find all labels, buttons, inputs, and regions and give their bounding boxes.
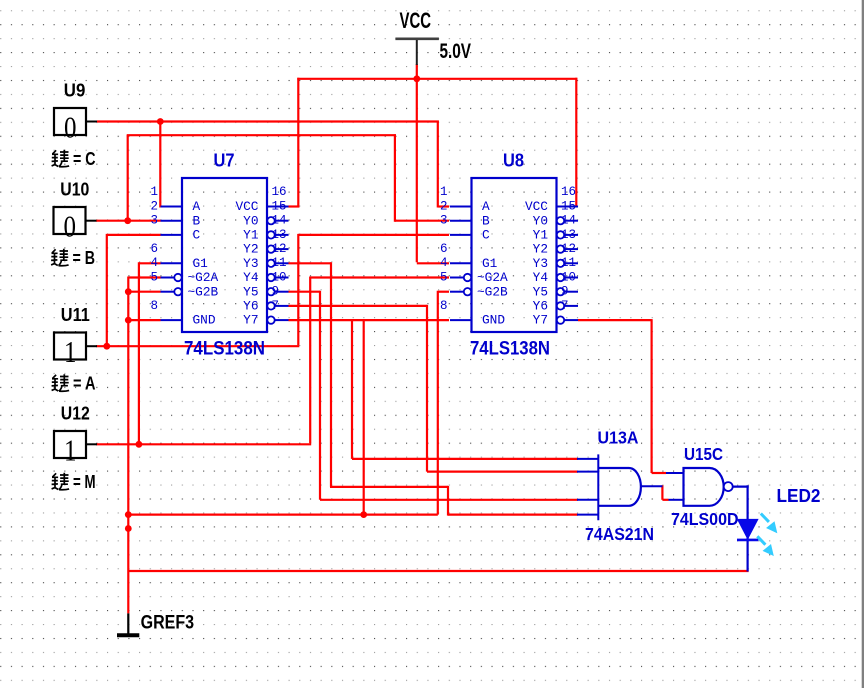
- svg-text:VCC: VCC: [525, 199, 548, 214]
- wire into U8 pin B: [395, 220, 449, 222]
- label 键 = A: [52, 374, 70, 391]
- wire riser U9 to U7 pin A: [159, 121, 161, 208]
- wire riser down to U8 VCC pin: [575, 78, 577, 207]
- pin 1 (A) of U7: [161, 206, 183, 208]
- label 键 = M: [52, 473, 70, 490]
- LED cathode bar: [737, 539, 758, 542]
- wire U12 key output horizontal y=444.3: [96, 443, 311, 445]
- junction ground vertical / ground rail: [125, 511, 132, 518]
- svg-text:C: C: [193, 228, 201, 243]
- NAND gate body: [684, 468, 724, 506]
- wire U7 Y6 out horizontal: [289, 305, 428, 307]
- wire VCC symbol lead red part: [416, 64, 418, 80]
- pin 5 (~G2B) of U8: [450, 291, 464, 293]
- wire VCC rail horizontal y=78.8: [297, 78, 577, 80]
- wire riser U7 VCC up: [297, 78, 299, 208]
- LED triangle: [738, 519, 758, 538]
- svg-text:4: 4: [150, 256, 158, 270]
- wire ground vertical x=128.3: [127, 277, 129, 614]
- svg-text:Y1: Y1: [533, 228, 549, 243]
- svg-text:Y0: Y0: [533, 213, 548, 228]
- wire U7 Y7 out horizontal (continuous through U8 GND row): [289, 319, 450, 321]
- pin 11 (Y4) of U8: [557, 274, 564, 281]
- svg-text:~G2A: ~G2A: [477, 270, 508, 285]
- junction dot on ground vertical: [125, 525, 132, 532]
- pin 13 (Y2) of U8: [557, 245, 564, 252]
- svg-text:10: 10: [272, 270, 287, 284]
- wire riser down to U8 pin B row: [394, 134, 396, 222]
- pin 6 (G1) of U8: [450, 262, 472, 264]
- pin 4 (~G2A) of U7: [161, 277, 175, 279]
- svg-text:U8: U8: [503, 151, 524, 171]
- svg-text:Y5: Y5: [243, 284, 258, 299]
- AND input stub 3: [577, 499, 598, 501]
- NAND input stub 2: [669, 499, 684, 501]
- svg-text:5: 5: [440, 270, 448, 284]
- svg-text:= M: = M: [73, 472, 96, 492]
- pin 12 (Y3) of U7: [267, 260, 274, 267]
- junction U9 wire / U7 A riser: [157, 118, 164, 125]
- svg-text:13: 13: [561, 228, 576, 242]
- svg-text:1: 1: [64, 433, 77, 468]
- wire riser U10 branch up: [127, 135, 129, 220]
- pin 8 (GND) of U7: [161, 319, 183, 321]
- junction ground vertical / U7 GND: [125, 317, 132, 324]
- svg-text:74LS138N: 74LS138N: [184, 338, 265, 359]
- wire into AND gate input 1: [352, 458, 578, 460]
- svg-text:5: 5: [150, 270, 158, 284]
- pin 11 (Y4) of U7: [267, 274, 274, 281]
- pin 2 (B) of U7: [161, 220, 183, 222]
- svg-text:5.0V: 5.0V: [440, 40, 472, 63]
- pin 16 (VCC) of U7: [267, 206, 289, 208]
- wire ground rail y=514.6: [127, 513, 438, 515]
- svg-text:1: 1: [440, 185, 448, 199]
- label 键 = C: [52, 150, 70, 167]
- svg-text:1: 1: [150, 185, 158, 199]
- svg-text:9: 9: [272, 285, 280, 299]
- svg-text:LED2: LED2: [777, 486, 821, 506]
- wire riser U8 Y7 down to NAND: [650, 319, 652, 473]
- svg-text:~G2B: ~G2B: [188, 284, 219, 299]
- wire into NAND input 2: [662, 499, 668, 501]
- AND input stub 4: [577, 514, 598, 516]
- svg-text:GND: GND: [482, 313, 505, 328]
- svg-text:4: 4: [440, 256, 448, 270]
- wire Y3 jog down to AND in4 row: [447, 486, 449, 516]
- svg-text:Y5: Y5: [533, 284, 548, 299]
- svg-text:G1: G1: [193, 256, 209, 271]
- svg-text:74AS21N: 74AS21N: [585, 524, 654, 544]
- wire riser U11 up to U8 C row: [297, 234, 299, 345]
- svg-text:0: 0: [64, 209, 77, 244]
- wire U7 VCC pin stub extension: [289, 205, 300, 207]
- junction VCC rail: [413, 75, 420, 82]
- wire riser U7 Y6 down: [426, 305, 428, 472]
- svg-text:6: 6: [150, 242, 158, 256]
- svg-text:Y3: Y3: [533, 256, 548, 271]
- svg-text:8: 8: [150, 299, 158, 313]
- wire bottom rail y=571 to LED cathode: [128, 570, 748, 572]
- svg-text:U12: U12: [61, 404, 90, 424]
- wire riser ground rail up to U8 ~G2B: [437, 291, 439, 515]
- svg-text:14: 14: [272, 214, 287, 228]
- wire riser U12 up to U7 G1 row: [138, 262, 140, 443]
- svg-text:= C: = C: [73, 149, 96, 169]
- pin 7 (Y7) of U7: [267, 316, 274, 323]
- wire U11 key output horizontal y=346.2: [96, 345, 299, 347]
- wire into U7 pin G1: [139, 262, 161, 264]
- pin 13 (Y2) of U7: [267, 245, 274, 252]
- wire U10 key output to U7 pin B: [96, 220, 161, 222]
- pin 9 (Y6) of U7: [267, 302, 274, 309]
- AND gate input bar: [597, 454, 599, 520]
- pin 3 (C) of U7: [161, 234, 183, 236]
- pin 14 (Y1) of U8: [557, 231, 564, 238]
- svg-text:11: 11: [561, 256, 576, 270]
- pin 3 (C) of U8: [450, 234, 472, 236]
- junction ground rail / U8 GND riser: [360, 511, 367, 518]
- svg-text:14: 14: [561, 214, 576, 228]
- pin 1 (A) of U8: [450, 206, 472, 208]
- svg-text:16: 16: [272, 185, 287, 199]
- pin 10 (Y5) of U7: [267, 288, 274, 295]
- junction U10 wire / riser: [124, 217, 131, 224]
- LED light arrow 1: [761, 514, 777, 533]
- svg-text:GND: GND: [193, 313, 216, 328]
- LED light arrow 2: [757, 536, 773, 555]
- pin 12 (Y3) of U8: [557, 260, 564, 267]
- svg-text:10: 10: [561, 270, 576, 284]
- svg-text:3: 3: [150, 214, 158, 228]
- svg-text:B: B: [482, 213, 490, 228]
- svg-text:Y1: Y1: [243, 228, 259, 243]
- svg-text:A: A: [193, 199, 201, 214]
- wire U7 Y3 out horizontal: [289, 262, 332, 264]
- svg-text:Y4: Y4: [243, 270, 259, 285]
- svg-text:= B: = B: [73, 248, 96, 268]
- switch U10 (key B): [54, 207, 86, 234]
- wire U7 Y5 out horizontal: [289, 291, 321, 293]
- right window border: [862, 0, 864, 688]
- pin 14 (Y1) of U7: [267, 231, 274, 238]
- LED anode/cathode wire vertical: [746, 485, 748, 571]
- wire into U8 pin ~G2A: [310, 276, 449, 278]
- wire into U7 pin ~G2A: [128, 276, 160, 278]
- wire VCC down to U8 G1 row: [416, 79, 418, 262]
- svg-text:9: 9: [561, 285, 569, 299]
- NAND output bubble: [724, 482, 733, 491]
- pin 2 (B) of U8: [450, 220, 472, 222]
- svg-text:Y6: Y6: [243, 299, 258, 314]
- pin 16 (VCC) of U8: [557, 206, 579, 208]
- svg-text:Y2: Y2: [243, 242, 258, 257]
- svg-text:2: 2: [440, 199, 448, 213]
- wire riser U9 to U8 pin A: [437, 121, 439, 208]
- svg-text:= A: = A: [73, 374, 96, 394]
- svg-text:74LS138N: 74LS138N: [470, 338, 550, 359]
- wire into U8 pin G1: [417, 262, 449, 264]
- wire into AND gate input 4: [448, 513, 578, 515]
- svg-text:16: 16: [561, 185, 576, 199]
- pin 7 (Y7) of U8: [557, 316, 564, 323]
- svg-text:G1: G1: [482, 256, 498, 271]
- svg-text:3: 3: [440, 214, 448, 228]
- junction U12 wire / U7 G1 riser: [136, 441, 143, 448]
- svg-text:U11: U11: [61, 305, 90, 325]
- wire into U7 pin GND: [128, 319, 160, 321]
- decoder U7 74LS138N body: [182, 178, 267, 332]
- svg-text:2: 2: [150, 199, 158, 213]
- pin 4 (~G2A) of U8: [450, 277, 464, 279]
- svg-text:B: B: [193, 213, 201, 228]
- svg-text:Y0: Y0: [243, 213, 258, 228]
- svg-text:11: 11: [272, 256, 287, 270]
- AND output stub: [641, 485, 663, 487]
- wire riser U7 Y5 down: [319, 291, 321, 500]
- pin 5 (~G2B) of U7: [161, 291, 175, 293]
- svg-text:VCC: VCC: [400, 8, 432, 33]
- svg-text:8: 8: [440, 299, 448, 313]
- label 键 = B: [51, 249, 69, 266]
- wire into U8 pin ~G2B: [438, 291, 449, 293]
- svg-text:Y3: Y3: [243, 256, 258, 271]
- svg-text:Y4: Y4: [533, 270, 549, 285]
- junction U11 wire / U7 C riser: [103, 343, 110, 350]
- svg-text:~G2A: ~G2A: [188, 270, 219, 285]
- svg-text:U7: U7: [214, 151, 235, 171]
- decoder U8 74LS138N body: [472, 178, 557, 332]
- wire U8 Y7 out horizontal: [578, 319, 652, 321]
- pin 6 (G1) of U7: [161, 262, 183, 264]
- wire riser U12 up to U8 ~G2A row: [309, 277, 311, 444]
- svg-text:74LS00D: 74LS00D: [671, 509, 739, 529]
- ground GREF3 symbol: [127, 613, 129, 634]
- svg-text:12: 12: [272, 242, 287, 256]
- wire into U7 pin ~G2B: [128, 291, 160, 293]
- svg-text:Y6: Y6: [533, 299, 548, 314]
- wire jog AND output down: [661, 485, 663, 500]
- svg-text:Y7: Y7: [533, 313, 548, 328]
- svg-text:VCC: VCC: [235, 199, 258, 214]
- pin 15 (Y0) of U8: [557, 217, 564, 224]
- wire into U8 pin A: [438, 205, 449, 207]
- wire riser U7 Y3 down: [330, 262, 332, 487]
- wire riser U11 up to U7 C row: [106, 234, 108, 345]
- wire riser U7 Y7 down: [351, 319, 353, 459]
- pin 10 (Y5) of U8: [557, 288, 564, 295]
- svg-text:15: 15: [272, 199, 287, 213]
- AND input stub 1: [577, 458, 598, 460]
- wire horizontal y=135.2 to U8 B riser: [127, 134, 396, 136]
- svg-text:~G2B: ~G2B: [477, 284, 508, 299]
- pin 15 (Y0) of U7: [267, 217, 274, 224]
- pin 9 (Y6) of U8: [557, 302, 564, 309]
- svg-text:U15C: U15C: [684, 444, 723, 464]
- svg-text:GREF3: GREF3: [141, 612, 195, 633]
- wire riser ground rail up to U8 GND: [363, 319, 365, 513]
- NAND input stub 1: [666, 472, 684, 474]
- svg-text:7: 7: [561, 299, 569, 313]
- switch U9 (key C): [54, 108, 86, 135]
- wire into AND gate input 3: [320, 499, 578, 501]
- pin 8 (GND) of U8: [450, 319, 472, 321]
- wire into U7 pin C: [107, 234, 161, 236]
- NAND output stub: [733, 486, 749, 488]
- svg-text:Y2: Y2: [533, 242, 548, 257]
- AND gate body: [598, 468, 641, 506]
- svg-text:6: 6: [440, 242, 448, 256]
- svg-text:U13A: U13A: [598, 427, 639, 447]
- svg-text:7: 7: [272, 299, 280, 313]
- svg-text:1: 1: [64, 334, 77, 369]
- wire into AND gate input 2: [427, 471, 578, 473]
- switch U12 (key M): [54, 431, 86, 458]
- svg-text:U9: U9: [64, 81, 86, 101]
- svg-text:15: 15: [561, 199, 576, 213]
- wire into U8 pin C: [298, 234, 449, 236]
- svg-text:A: A: [482, 199, 490, 214]
- svg-text:Y7: Y7: [243, 313, 258, 328]
- svg-text:13: 13: [272, 228, 287, 242]
- wire Y3 horizontal y=486.9: [330, 486, 448, 488]
- svg-text:C: C: [482, 228, 490, 243]
- power VCC symbol: [395, 37, 439, 40]
- svg-text:12: 12: [561, 242, 576, 256]
- wire into NAND input 1: [652, 472, 666, 474]
- svg-text:0: 0: [64, 110, 77, 145]
- wire U9 key output horizontal y=121.5: [97, 120, 439, 122]
- switch U11 (key A): [54, 333, 86, 360]
- AND input stub 2: [577, 471, 598, 473]
- junction ground vertical / U7 ~G2B: [125, 288, 132, 295]
- svg-text:U10: U10: [60, 180, 89, 200]
